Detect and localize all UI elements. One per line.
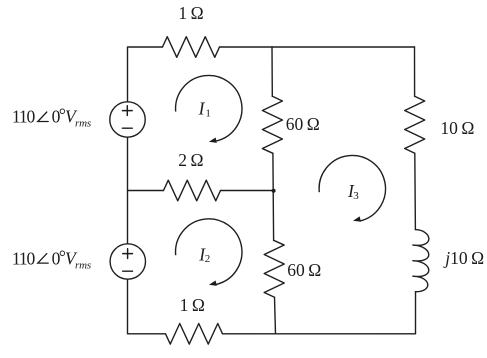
inductor L j10ohm: [413, 230, 429, 292]
wire top right segment: [220, 46, 415, 48]
mesh arrow I2 arc: [176, 219, 242, 285]
voltage source V2 circle: [110, 244, 145, 279]
resistor R3 10ohm: [405, 96, 425, 153]
wire middle horizontal left: [128, 190, 164, 192]
V2 minus sign: [123, 270, 133, 272]
V1 plus sign: [122, 106, 132, 116]
svg-text:60 Ω: 60 Ω: [286, 114, 320, 134]
wire middle horizontal right: [221, 190, 274, 192]
wire right vertical bottom: [415, 292, 417, 334]
svg-text:110: 110: [12, 248, 36, 268]
svg-text:2 Ω: 2 Ω: [178, 150, 203, 170]
svg-text:1: 1: [205, 107, 211, 119]
svg-text:3: 3: [353, 190, 359, 202]
angle symbol lower source: [38, 254, 48, 264]
junction node dot: [272, 189, 276, 193]
wire left between sources: [127, 137, 129, 244]
svg-text:2: 2: [205, 253, 211, 265]
voltage source V1 circle: [110, 102, 145, 137]
resistor R4 2ohm: [164, 180, 221, 201]
resistor R bottom 1ohm: [166, 324, 223, 345]
resistor R2 60ohm lower: [264, 240, 284, 297]
svg-text:rms: rms: [75, 259, 91, 271]
mesh arrow I3 arc: [319, 155, 385, 221]
wire right vertical mid: [414, 153, 417, 229]
resistor R top 1ohm: [163, 37, 220, 58]
wire bottom left segment: [128, 279, 166, 334]
svg-text:10 Ω: 10 Ω: [440, 118, 474, 138]
V2 plus sign: [123, 249, 133, 259]
wire top-left segment: [128, 47, 163, 102]
svg-text:j10 Ω: j10 Ω: [443, 248, 484, 268]
mesh arrow I3 head: [353, 216, 361, 221]
svg-text:60 Ω: 60 Ω: [287, 260, 321, 280]
mesh arrow I2 head: [209, 281, 217, 286]
angle symbol upper source: [38, 112, 48, 122]
wire middle vertical bottom: [275, 297, 276, 334]
wire middle vertical mid: [272, 153, 275, 240]
mesh arrow I1 head: [209, 138, 217, 143]
svg-text:1 Ω: 1 Ω: [180, 295, 205, 315]
mesh arrow I1 arc: [176, 75, 242, 141]
svg-text:I: I: [198, 98, 206, 118]
wire middle vertical top: [271, 47, 273, 96]
svg-text:1 Ω: 1 Ω: [178, 3, 203, 23]
resistor R1 60ohm upper: [262, 96, 282, 153]
svg-text:110: 110: [12, 106, 36, 126]
wire bottom right segment: [223, 333, 416, 335]
V1 minus sign: [122, 127, 132, 129]
svg-text:rms: rms: [75, 117, 91, 129]
wire right vertical top: [414, 47, 416, 96]
